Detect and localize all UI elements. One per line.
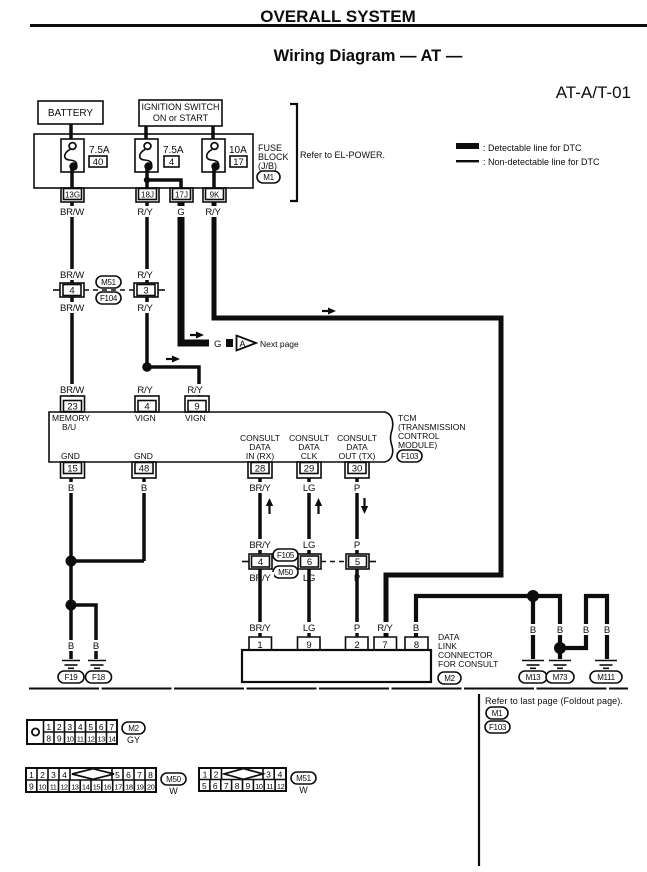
svg-text:16: 16 [104, 783, 112, 792]
svg-text:4: 4 [78, 722, 83, 732]
label G top [173, 206, 189, 218]
svg-text:9: 9 [29, 782, 34, 792]
ground M111 [590, 661, 622, 684]
svg-text:B: B [68, 641, 74, 652]
svg-text:1: 1 [29, 770, 34, 780]
next page triangle A [237, 336, 257, 351]
connector face M51 [199, 768, 286, 791]
M50 oval [273, 566, 298, 578]
svg-text:BR/W: BR/W [60, 207, 84, 218]
DLC tab 1 [249, 637, 272, 651]
ground F18 [86, 661, 112, 684]
svg-text:G: G [177, 207, 184, 218]
svg-text:4: 4 [169, 157, 174, 168]
label P below 30 [351, 482, 363, 494]
label R/Y below conn 3 [134, 302, 158, 314]
svg-text:5: 5 [115, 770, 120, 780]
svg-text:17: 17 [114, 783, 122, 792]
svg-text:M51: M51 [101, 278, 117, 287]
wire P to DLC 2 [355, 569, 359, 638]
svg-text:5: 5 [88, 722, 93, 732]
legend non-detectable line [456, 160, 479, 162]
svg-text:B: B [413, 623, 419, 634]
svg-text:VIGN: VIGN [185, 413, 206, 423]
svg-text:F104: F104 [100, 294, 118, 303]
svg-text:P: P [354, 540, 360, 551]
wire BR/W col1 13G to TCM 23 [70, 202, 74, 396]
svg-text:IN (RX): IN (RX) [246, 451, 275, 461]
arrow on 9K run [322, 308, 336, 315]
svg-text:6: 6 [307, 557, 312, 568]
label R/Y top [134, 206, 158, 218]
svg-text:MODULE): MODULE) [398, 440, 437, 450]
svg-text:P: P [354, 483, 360, 494]
svg-text:OVERALL SYSTEM: OVERALL SYSTEM [260, 7, 416, 26]
svg-text:12: 12 [60, 783, 68, 792]
label B M73 [553, 624, 567, 636]
label BR/W above TCM 23 [58, 384, 87, 396]
dashed link 6 to 5 [321, 561, 346, 563]
DLC box M2 [242, 650, 431, 682]
svg-text:7.5A: 7.5A [89, 145, 110, 156]
M51 oval [96, 276, 121, 288]
svg-text:B: B [557, 625, 563, 636]
junction dot M73 [554, 642, 566, 654]
arrow up BR/Y [266, 498, 273, 514]
svg-text:11: 11 [77, 735, 84, 744]
svg-text:GY: GY [127, 735, 140, 745]
label P below conn5 [351, 572, 363, 584]
svg-text:4: 4 [144, 402, 149, 413]
svg-text:OUT (TX): OUT (TX) [339, 451, 376, 461]
svg-text:M13: M13 [526, 673, 542, 682]
svg-text:5: 5 [355, 557, 360, 568]
wire LG col 29 [307, 478, 311, 556]
svg-text:10A: 10A [229, 145, 247, 156]
svg-text:7: 7 [224, 781, 229, 791]
dash stub left of connector 4 [53, 289, 60, 291]
wire ignition to fuse 2 [144, 126, 148, 141]
TCM connector 15 [61, 462, 85, 478]
ground F19 [58, 661, 84, 684]
dash stub right of connector 5 [369, 561, 376, 563]
svg-text:9K: 9K [210, 191, 220, 200]
svg-text:Wiring Diagram — AT —: Wiring Diagram — AT — [274, 47, 463, 65]
svg-text:BATTERY: BATTERY [48, 108, 94, 119]
svg-text:R/Y: R/Y [205, 207, 221, 218]
svg-text:BR/W: BR/W [60, 270, 84, 281]
label B M13 [526, 624, 540, 636]
fuse block M1 box [34, 134, 253, 188]
label B below GND15 [64, 482, 78, 494]
svg-text:4: 4 [258, 557, 263, 568]
svg-text:F103: F103 [401, 452, 419, 461]
svg-text:BR/W: BR/W [60, 303, 84, 314]
junction under fuse 2 [144, 177, 150, 183]
wire B conn8 to ground bus [416, 596, 560, 659]
fuse 7.5A 4 [135, 139, 184, 172]
label BR/Y below 28 [246, 482, 274, 494]
svg-text:7: 7 [109, 722, 114, 732]
F103 oval [397, 450, 422, 462]
svg-text:3: 3 [51, 770, 56, 780]
svg-text:M2: M2 [128, 724, 139, 733]
svg-text:: Detectable line for DTC: : Detectable line for DTC [483, 143, 582, 153]
arrow on branch [166, 356, 180, 363]
M2 oval [438, 672, 461, 684]
svg-text:B: B [68, 483, 74, 494]
svg-text:4: 4 [62, 770, 67, 780]
label B loop [579, 624, 593, 636]
svg-text:R/Y: R/Y [137, 270, 153, 281]
svg-text:(J/B): (J/B) [258, 161, 277, 171]
M1 oval [257, 171, 280, 183]
svg-text:8: 8 [148, 770, 153, 780]
svg-text:28: 28 [255, 464, 266, 475]
ground M13 [519, 661, 547, 684]
TCM connector 9 top [185, 396, 209, 413]
label B below GND48 [137, 482, 151, 494]
svg-text:BR/W: BR/W [60, 385, 84, 396]
inline connector 4 (F105/M50) [249, 554, 272, 569]
svg-text:14: 14 [108, 735, 116, 744]
svg-text:1: 1 [46, 722, 51, 732]
label LG below conn6 [300, 572, 318, 584]
junction dot col1 at 561 [66, 556, 77, 567]
svg-text:13G: 13G [65, 191, 80, 200]
wire fuse3 to 9K [212, 169, 216, 190]
svg-text:M50: M50 [166, 775, 182, 784]
dash stub right of connector 3 [158, 289, 165, 291]
svg-text:M1: M1 [263, 173, 274, 182]
branch to VIGN 9 [147, 367, 199, 396]
svg-text:M2: M2 [444, 674, 455, 683]
svg-text:Next page: Next page [260, 339, 299, 349]
svg-text:48: 48 [139, 464, 150, 475]
label B M111 [600, 624, 614, 636]
svg-text:Refer to last page (Foldout pa: Refer to last page (Foldout page). [485, 696, 623, 706]
svg-text:9: 9 [246, 781, 251, 791]
label R/Y above TCM 9 [184, 384, 208, 396]
svg-text:W: W [169, 786, 178, 796]
svg-text:11: 11 [50, 783, 57, 792]
svg-text:BR/Y: BR/Y [249, 623, 271, 634]
svg-text:6: 6 [99, 722, 104, 732]
svg-text:20: 20 [147, 783, 155, 792]
TCM consult labels [240, 433, 280, 461]
svg-text:CLK: CLK [301, 451, 318, 461]
label B F18 [89, 640, 103, 652]
F104 oval [96, 292, 121, 304]
svg-text:8: 8 [235, 781, 240, 791]
M50 face label oval [161, 773, 186, 796]
svg-text:19: 19 [136, 783, 144, 792]
svg-text:3: 3 [143, 286, 148, 297]
svg-text:10: 10 [255, 782, 263, 791]
ignition switch box [139, 100, 222, 126]
battery box [38, 101, 103, 124]
svg-text:14: 14 [82, 783, 90, 792]
connector 17J [170, 188, 193, 202]
DLC tab 9 [298, 637, 321, 651]
svg-text:9: 9 [194, 402, 199, 413]
ground M73 [546, 661, 574, 684]
label LG above DLC [300, 622, 318, 634]
svg-text:13: 13 [98, 735, 106, 744]
svg-text:G: G [214, 339, 221, 350]
junction dot bus M13 [527, 590, 539, 602]
svg-text:R/Y: R/Y [137, 385, 153, 396]
label P above DLC [351, 622, 363, 634]
svg-text:F18: F18 [92, 673, 106, 682]
svg-text:18J: 18J [141, 191, 154, 200]
wire G col3 17J thick [181, 202, 209, 343]
branch wire to 17J [147, 180, 181, 190]
legend detectable bar [456, 143, 479, 149]
svg-text:7.5A: 7.5A [163, 145, 184, 156]
svg-text:17J: 17J [175, 191, 188, 200]
bracket right of fuse block [290, 104, 297, 201]
svg-text:3: 3 [266, 770, 271, 780]
wire B col1 GND15 down to F19 [69, 478, 73, 659]
M1 oval footer [486, 707, 508, 719]
label BR/Y above conn4 [246, 539, 274, 551]
svg-text:ON or START: ON or START [153, 113, 209, 123]
G next page arrow [190, 332, 204, 339]
svg-text:M1: M1 [492, 709, 503, 718]
inline connector 6 [298, 554, 321, 569]
svg-text:LG: LG [303, 483, 315, 494]
page separator dashed line [29, 688, 628, 690]
svg-text:B/U: B/U [62, 422, 76, 432]
connector 13G [61, 188, 84, 202]
svg-text:IGNITION SWITCH: IGNITION SWITCH [142, 102, 220, 112]
wire ignition to fuse 3 [211, 126, 215, 141]
wire R/Y col2 18J down [145, 202, 149, 367]
wire P col 30 [355, 478, 359, 556]
svg-text:F103: F103 [489, 723, 507, 732]
svg-text:R/Y: R/Y [187, 385, 203, 396]
svg-text:4: 4 [278, 770, 283, 780]
svg-text:FOR CONSULT: FOR CONSULT [438, 659, 498, 669]
svg-text:17: 17 [233, 157, 244, 168]
label B above DLC8 [409, 622, 423, 634]
svg-text:15: 15 [93, 783, 101, 792]
svg-text:: Non-detectable line for DTC: : Non-detectable line for DTC [483, 157, 600, 167]
svg-text:2: 2 [40, 770, 45, 780]
svg-text:M50: M50 [278, 568, 294, 577]
TCM name text [398, 413, 466, 450]
label LG above conn6 [300, 539, 318, 551]
svg-text:6: 6 [213, 781, 218, 791]
wire BR/Y col 28 [258, 478, 262, 556]
wire battery to fuse block [69, 124, 73, 140]
svg-text:8: 8 [46, 734, 51, 744]
svg-text:7: 7 [137, 770, 142, 780]
svg-text:M73: M73 [553, 673, 569, 682]
wire BR/Y to DLC 1 [258, 569, 262, 638]
svg-text:4: 4 [69, 286, 74, 297]
wire fuse2 to 18J with junction [145, 169, 149, 190]
wire LG to DLC 9 [307, 569, 311, 638]
DLC tab 8 [405, 637, 428, 651]
dash stub left of connector 4 (DLC row) [242, 561, 249, 563]
label R/Y top col4 [202, 206, 226, 218]
svg-text:AT-A/T-01: AT-A/T-01 [556, 83, 631, 102]
junction dot col1 at 605 [66, 600, 77, 611]
svg-text:9: 9 [57, 734, 62, 744]
svg-text:A: A [240, 339, 246, 349]
arrow up LG [315, 498, 322, 514]
svg-text:12: 12 [277, 782, 285, 791]
fuse 10A 17 [202, 139, 247, 172]
inline connector 4 (M51/F104) [60, 283, 84, 297]
svg-text:30: 30 [352, 464, 363, 475]
footer divider vertical line [478, 694, 480, 866]
arrow down P [361, 498, 368, 514]
M51 face label oval [291, 772, 316, 795]
svg-text:10: 10 [66, 735, 74, 744]
svg-text:BR/Y: BR/Y [249, 483, 271, 494]
svg-text:11: 11 [266, 782, 273, 791]
DLC tab 2 [346, 637, 369, 651]
svg-text:B: B [141, 483, 147, 494]
svg-text:10: 10 [39, 783, 47, 792]
svg-text:LG: LG [303, 540, 315, 551]
svg-text:2: 2 [214, 770, 219, 780]
branch 48 to col1 [71, 559, 144, 563]
inline connector 3 (M51/F104) [134, 283, 158, 297]
F105 oval [273, 549, 298, 561]
svg-text:29: 29 [304, 464, 315, 475]
wire M13 down [531, 596, 535, 659]
TCM box F103 [49, 412, 393, 462]
svg-text:B: B [604, 625, 610, 636]
M2 face label oval [122, 722, 145, 745]
branch to F18 ground [71, 605, 96, 659]
label BR/W above conn 4 [58, 269, 87, 281]
label BR/Y above DLC [246, 622, 274, 634]
connector 18J [136, 188, 159, 202]
wire M73 branch up loop to M111 [560, 596, 607, 659]
svg-text:13: 13 [71, 783, 79, 792]
svg-text:BR/Y: BR/Y [249, 540, 271, 551]
svg-text:B: B [93, 641, 99, 652]
svg-text:B: B [530, 625, 536, 636]
svg-text:F19: F19 [65, 673, 79, 682]
svg-text:VIGN: VIGN [135, 413, 156, 423]
svg-text:18: 18 [125, 783, 133, 792]
inline connector 5 [346, 554, 369, 569]
label P above conn5 [351, 539, 363, 551]
label BR/W top [58, 206, 87, 218]
svg-text:5: 5 [202, 781, 207, 791]
TCM connector 4 top [135, 396, 159, 413]
fuse 7.5A 40 [61, 139, 110, 172]
svg-text:B: B [583, 625, 589, 636]
TCM connector 23 [61, 396, 85, 413]
svg-text:1: 1 [203, 770, 208, 780]
junction dot col2 [142, 362, 152, 372]
wire fuse1 to 13G [70, 169, 74, 190]
svg-text:LG: LG [303, 623, 315, 634]
svg-text:R/Y: R/Y [137, 207, 153, 218]
DLC tab 7 [374, 637, 397, 651]
svg-text:23: 23 [67, 402, 78, 413]
svg-text:40: 40 [93, 157, 104, 168]
TCM connector 29 [297, 462, 321, 478]
label R/Y above DLC7 [373, 622, 397, 634]
svg-text:R/Y: R/Y [137, 303, 153, 314]
svg-text:R/Y: R/Y [377, 623, 393, 634]
connector face M50 [26, 768, 156, 792]
next page connector square [226, 339, 233, 347]
svg-text:P: P [354, 623, 360, 634]
title underline [30, 24, 647, 27]
svg-text:M111: M111 [597, 673, 615, 682]
connector 9K [203, 188, 226, 202]
svg-text:GND: GND [61, 451, 80, 461]
connector face M2 [27, 720, 117, 744]
TCM connector 48 [132, 462, 156, 478]
label R/Y above conn 3 [134, 269, 158, 281]
wire B col 48 down [142, 478, 146, 561]
label LG below 29 [300, 482, 318, 494]
wire R/Y col4 9K thick [214, 202, 501, 638]
svg-text:Refer to EL-POWER.: Refer to EL-POWER. [300, 150, 385, 160]
label BR/W below conn 4 [58, 302, 87, 314]
svg-text:GND: GND [134, 451, 153, 461]
F103 oval footer [485, 721, 510, 733]
TCM connector 28 [248, 462, 272, 478]
FUSE BLOCK (J/B) label [258, 143, 289, 171]
svg-text:2: 2 [57, 722, 62, 732]
svg-text:12: 12 [87, 735, 95, 744]
svg-text:W: W [299, 785, 308, 795]
svg-text:M51: M51 [296, 774, 312, 783]
label BR/Y below conn4 [246, 572, 274, 584]
svg-text:3: 3 [67, 722, 72, 732]
DLC name text [438, 632, 498, 669]
svg-text:F105: F105 [277, 551, 295, 560]
dashed link 4 to 3 [84, 289, 134, 291]
svg-text:6: 6 [126, 770, 131, 780]
label B col1 [64, 640, 78, 652]
label R/Y above TCM 4 [134, 384, 158, 396]
TCM connector 30 [345, 462, 369, 478]
svg-text:15: 15 [67, 464, 78, 475]
